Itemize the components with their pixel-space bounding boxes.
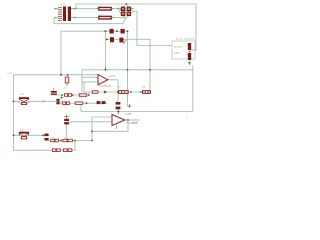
diode D2 (127, 7, 131, 11)
wire: bridge right corner down to regulator input (133, 11, 172, 45)
resistor pair ch2 row B left (52, 149, 60, 152)
wire: op-amp1 non-inverting input (82, 76, 98, 78)
node: supply wire x127.5 (127, 69, 129, 71)
plus polarity symbol (128, 104, 132, 108)
diode D1 (121, 7, 125, 11)
node: op-amp2 output (127, 119, 129, 121)
capacitor C3 ch1 input (51, 88, 64, 99)
node: regulator out (189, 51, 191, 53)
wire: transformer top-right pin to resistor R1 (76, 8, 98, 10)
svg-text:8R: 8R (42, 100, 45, 104)
capacitor C7 ch2 speaker (44, 134, 48, 141)
resistor R3 vertical under rail (64, 77, 69, 91)
capacitor C6 ch2 input electrolytic (64, 114, 69, 124)
resistor pair ch1 row A (65, 94, 72, 97)
wire: ch2 input coupling cap stem (66, 125, 68, 141)
wire: left vertical input rail x13.5 (13, 75, 15, 150)
node: supply wire x150 (149, 69, 151, 71)
wire: op-amp1 supply stub (105, 67, 107, 70)
capacitor C4 ch1 (56, 99, 59, 105)
wire: x105.5 vertical rail (105, 31, 107, 70)
resistor pair ch2 row B right (63, 149, 72, 152)
capacitor C5 output ch1 electrolytic (116, 102, 121, 109)
op-amp IC1B (112, 112, 138, 129)
op-amp IC1A (98, 67, 116, 88)
node: ch1 row A x72.8 (72, 94, 74, 96)
resistor R4 ch1 row A (79, 94, 87, 97)
wire: ch2 row A y138.8 (49, 140, 92, 142)
node: cap row2 left (106, 38, 108, 40)
node: ch1 row B x86.5 (86, 102, 88, 104)
wire: left input rail corner to op-amp1 y74.8 (14, 74, 98, 76)
resistor pair ch2 row A left (51, 139, 59, 142)
wire: bridge top corner stub (125, 3, 127, 5)
node: ch2 row A x75 (74, 140, 76, 142)
svg-text:IC2 78L05: IC2 78L05 (176, 37, 195, 41)
wire: op-amp2 non-inverting input (92, 116, 112, 118)
node: supply wire x105.5 (105, 69, 107, 71)
node: ch1 speaker cap (57, 100, 59, 102)
wire: op-amp2 power stubs (117, 112, 119, 129)
resistor R7 feedback left (92, 91, 98, 94)
node: ch2 row A x92 (91, 140, 93, 142)
node: feedback row left big (104, 91, 107, 94)
node: bridge top (126, 3, 128, 5)
node: cap C5 top bus (118, 111, 120, 113)
wire: transformer left pin lower horizontal run y23.7 (54, 18, 126, 24)
resistor pair ch2 row A right (63, 139, 73, 142)
node: caps row left (105, 30, 107, 32)
wire: op-amp1 inverting input (82, 81, 98, 83)
wire: ch2 bottom rail y147.8 (14, 141, 76, 151)
wire: R2 to bridge bottom corner (112, 17, 126, 20)
node: caps row mid (116, 30, 118, 32)
resistor R5 (118, 86, 129, 93)
svg-text:IC1A: IC1A (110, 74, 116, 78)
resistor ch1 row B (75, 102, 83, 105)
wire: feedback row y92 (84, 82, 151, 92)
diode D3 (121, 12, 125, 16)
speaker LS1 (19, 92, 30, 105)
wire: ch1 row A y95 (53, 92, 89, 95)
wire: regulator out to rail (191, 49, 196, 51)
svg-text:LS2: LS2 (20, 128, 25, 132)
diode pair ch1 row B right (97, 101, 106, 104)
node: x61 on rail (60, 74, 62, 76)
wire: top supply rail from transformer to right edge (76, 4, 196, 50)
wire: smoothing caps row y30-32.5 (61, 30, 128, 32)
wire: vertical x127.5 caps row to plus node (127, 31, 129, 106)
node: x68 on rail (67, 74, 69, 76)
node: caps row right (127, 30, 129, 32)
capacitor C2 (110, 37, 127, 43)
node: ch1 row A x88.8 (88, 94, 90, 96)
resistor pair ch1 row B (63, 102, 70, 105)
capacitor C1 (110, 29, 125, 34)
wire: cap row2 y39.3 to x150 vertical (106, 39, 151, 92)
svg-text:OUT: OUT (132, 121, 138, 125)
wire: speaker LS1 net y101.3 (14, 100, 63, 102)
node: ch2 row A x61 (60, 139, 62, 141)
svg-text:GND: GND (7, 72, 13, 75)
bridge rectifier B1 (117, 4, 133, 18)
svg-text:GND: GND (174, 52, 180, 55)
svg-text:LS1: LS1 (20, 92, 25, 96)
speaker LS2 (19, 128, 30, 139)
transformer TR1 (54, 3, 76, 22)
wire: op-amp2 output (125, 119, 140, 121)
wire: vertical x92 ch2 (91, 117, 93, 141)
resistor R1 (96, 5, 113, 10)
svg-text:IC1B: IC1B (126, 112, 132, 116)
node: ch2 speaker cap (42, 134, 44, 136)
node: ch1 row A x62 (61, 94, 63, 96)
wire: transformer bottom-right pin to resistor R2 (76, 17, 98, 19)
svg-text:TR1: TR1 (61, 3, 66, 7)
wire: vertical x82 (81, 70, 83, 92)
voltage regulator IC2 (172, 37, 196, 66)
wire: coupling cap bottom to ground bus (117, 109, 119, 111)
node: ch2 feedback (91, 130, 93, 132)
resistor R2 (96, 14, 113, 19)
node: feedback row x131 (130, 91, 132, 93)
wire: R1 to bridge left corner (112, 9, 122, 12)
svg-text:TDA2822M: TDA2822M (99, 85, 111, 88)
node: feedback row x118 (117, 91, 119, 93)
wire: speaker LS2 net y134.9 (14, 134, 45, 136)
wire: vertical drop x61 (60, 31, 62, 75)
wire: ch1 row B y103.2 (58, 102, 107, 104)
wire: regulator ground down the right side to bottom bus (81, 61, 193, 112)
wire: op-amp2 feedback y130 (92, 120, 128, 131)
ground arrow (188, 62, 192, 65)
wire: ch2 cap wire to op-amp2 inverting input (70, 121, 112, 123)
node: left rail / LS2 (13, 134, 15, 136)
wire: op-amp1 supply wire y69.8 (82, 69, 193, 71)
svg-text:IN OUT: IN OUT (174, 46, 183, 49)
node: feedback row x141 (140, 91, 142, 93)
node: left rail / LS1 (13, 100, 15, 102)
wire: op-amp1 output down to coupling cap (109, 80, 119, 102)
resistor R6 (142, 86, 150, 93)
diode D4 (127, 12, 131, 16)
